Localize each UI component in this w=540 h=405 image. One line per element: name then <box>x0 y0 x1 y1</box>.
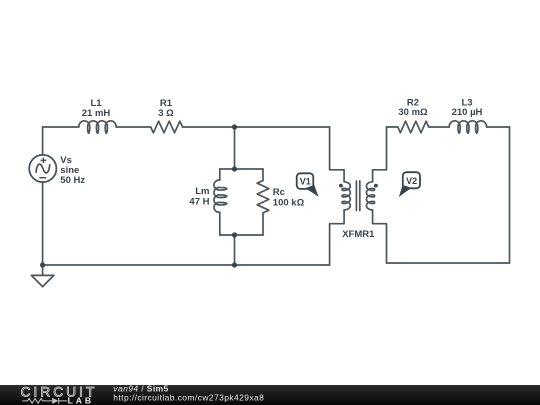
wire Rc branch top <box>262 169 264 181</box>
voltage source Vs <box>29 155 56 182</box>
wire shunt bottom bar <box>220 234 263 236</box>
wire bottom rail right <box>235 264 330 266</box>
svg-text:Lm: Lm <box>195 186 209 197</box>
node junction ground <box>40 262 45 267</box>
wire transformer secondary bottom lead <box>373 210 387 263</box>
svg-text:210 µH: 210 µH <box>452 107 483 118</box>
wire transformer secondary top lead <box>373 127 387 182</box>
wire shunt stem bottom <box>234 235 236 265</box>
inductor Lm <box>214 180 227 212</box>
wire R1 to node A <box>183 126 235 128</box>
wire R2 to L3 <box>429 126 450 128</box>
node junction shunt bottom <box>232 232 237 237</box>
ground <box>31 275 54 286</box>
svg-text:V1: V1 <box>300 177 311 187</box>
resistor Rc <box>257 181 269 213</box>
wire shunt top bar <box>220 168 263 170</box>
wire secondary top rail left <box>387 126 398 128</box>
svg-text:50 Hz: 50 Hz <box>60 175 85 186</box>
svg-text:3 Ω: 3 Ω <box>158 108 174 119</box>
svg-text:30 mΩ: 30 mΩ <box>398 107 428 118</box>
wire Lm branch bottom <box>219 212 221 235</box>
svg-text:21 mH: 21 mH <box>82 108 111 119</box>
wire secondary bottom rail <box>387 262 510 264</box>
wire ground stem <box>42 265 44 275</box>
voltage probe V2 <box>399 172 420 197</box>
node junction bottom rail <box>232 262 237 267</box>
svg-text:XFMR1: XFMR1 <box>342 229 375 240</box>
transformer primary phase dot <box>339 184 343 188</box>
wire secondary right side <box>509 127 511 263</box>
transformer XFMR1 primary winding <box>342 182 350 210</box>
wire Rc branch bottom <box>262 213 264 235</box>
wire L1 to R1 <box>116 126 151 128</box>
node junction shunt top <box>232 166 237 171</box>
wire transformer primary top lead <box>330 127 345 182</box>
transformer XFMR1 core <box>356 181 359 211</box>
resistor R2 <box>398 121 429 133</box>
svg-text:http://circuitlab.com/cw273pk4: http://circuitlab.com/cw273pk429xa8 <box>113 393 264 403</box>
transformer secondary phase dot <box>374 184 378 188</box>
wire Lm branch top <box>219 169 221 180</box>
svg-text:Rc: Rc <box>273 187 285 198</box>
svg-text:V2: V2 <box>406 176 417 186</box>
svg-text:47 H: 47 H <box>189 197 209 208</box>
voltage probe V1 <box>297 173 319 197</box>
transformer XFMR1 secondary winding <box>366 182 374 210</box>
wire source top lead <box>42 127 44 155</box>
wire node A to transformer <box>235 126 330 128</box>
wire bottom rail left <box>43 264 235 266</box>
svg-text:LAB: LAB <box>68 396 94 405</box>
wire top rail left <box>43 126 79 128</box>
CircuitLab logo wire-resistor-diode <box>22 398 67 404</box>
wire source bottom lead <box>42 182 44 265</box>
resistor R1 <box>151 121 183 133</box>
svg-text:100 kΩ: 100 kΩ <box>273 198 305 209</box>
wire transformer primary bottom lead <box>330 210 345 265</box>
inductor L1 <box>79 121 116 133</box>
inductor L3 <box>449 121 486 133</box>
node junction top rail <box>232 124 237 129</box>
wire L3 to corner <box>487 126 510 128</box>
wire shunt stem top <box>234 127 236 169</box>
